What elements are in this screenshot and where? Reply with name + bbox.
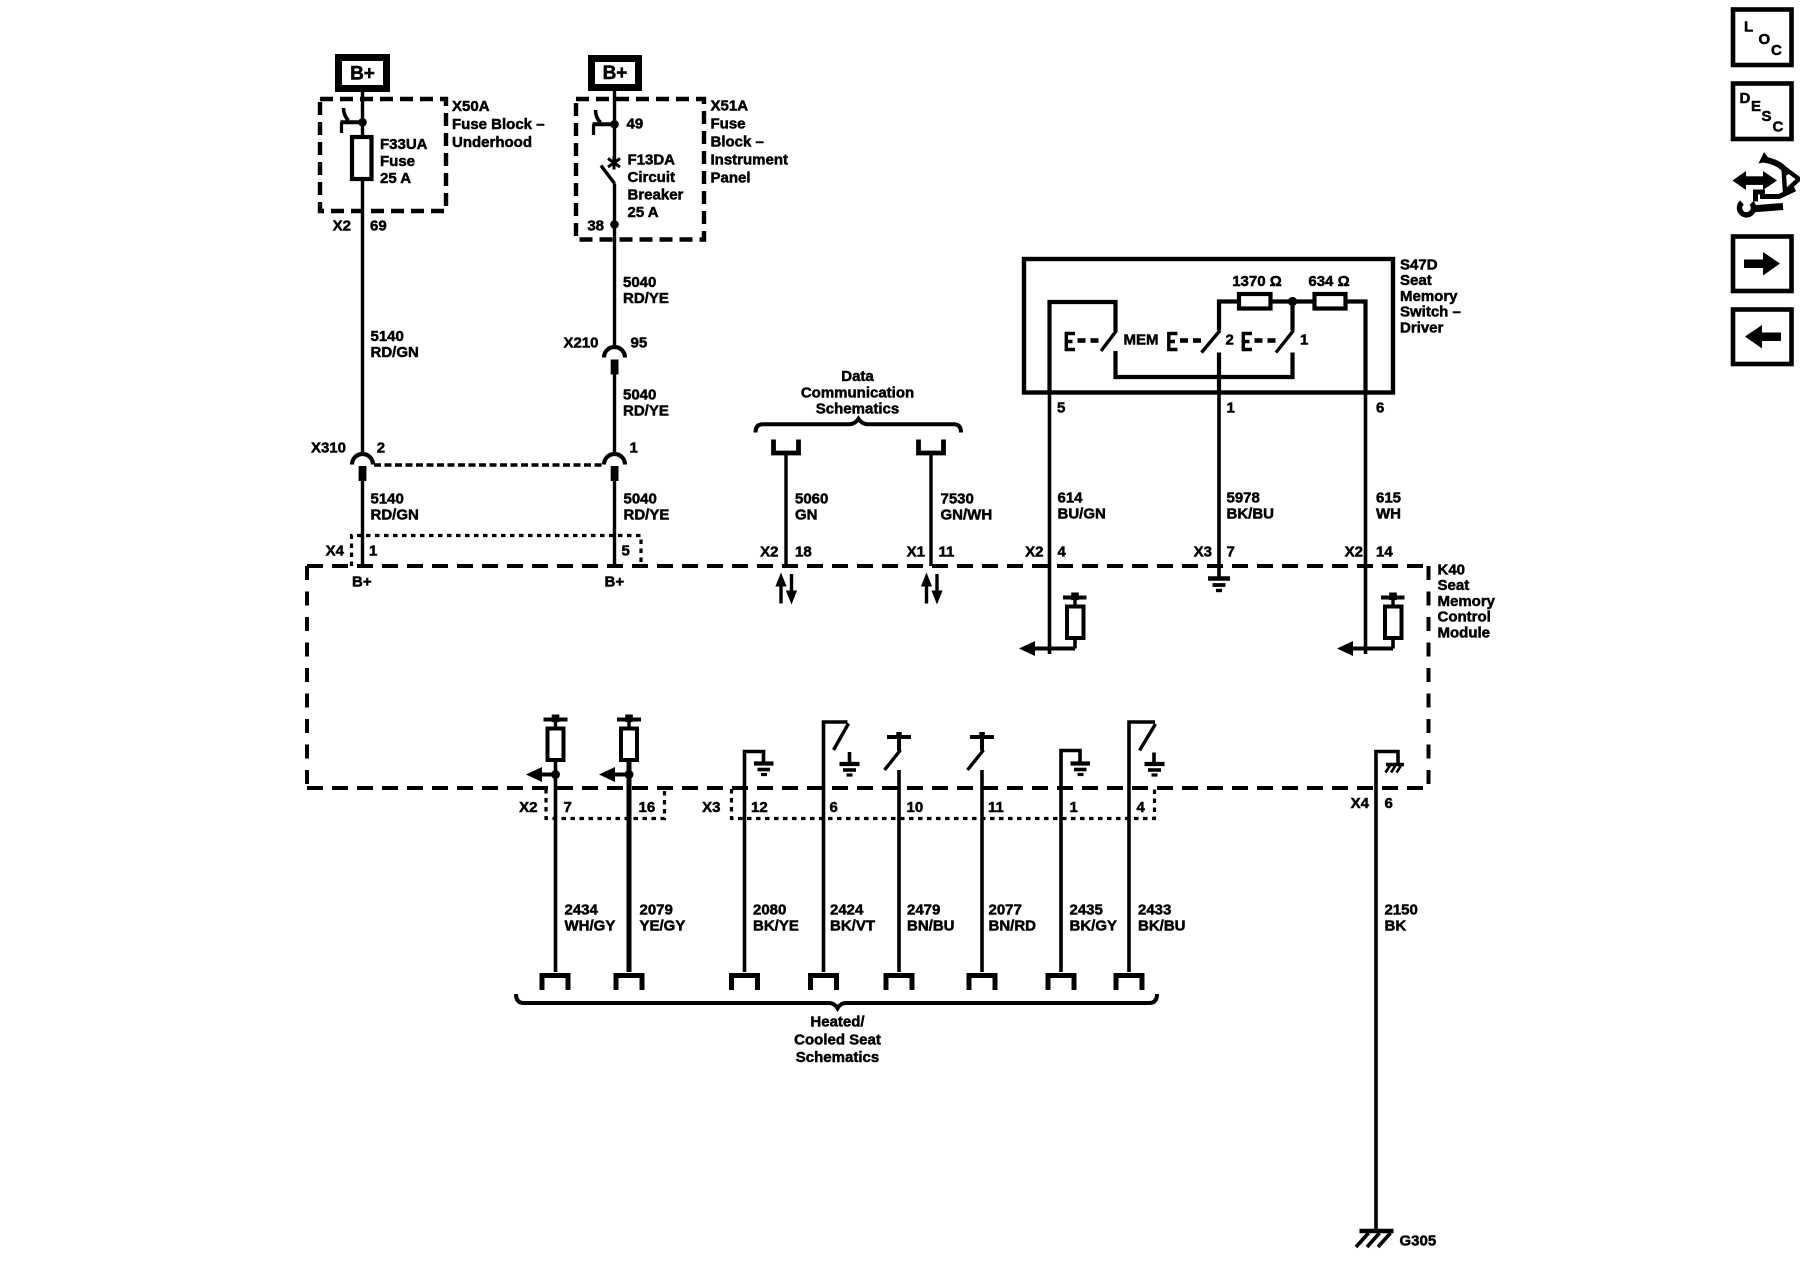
svg-text:2479: 2479 [907,902,940,919]
svg-text:615: 615 [1376,490,1401,507]
module K40 dashed boundary [307,566,1430,788]
svg-text:95: 95 [631,335,648,352]
feedback potentiometer on wire X2-16 [599,715,641,789]
svg-text:2434: 2434 [565,902,599,919]
svg-text:BK/BU: BK/BU [1227,506,1275,523]
dotted connector box around K40 pins X4-1 and X4-5 [352,536,642,567]
svg-text:L: L [1744,19,1753,36]
svg-text:X4: X4 [1351,795,1370,812]
off-page connector wire 2080 [732,976,758,991]
dotted connector box X2 (pins 7,16) [546,789,665,819]
svg-text:2: 2 [1226,332,1234,349]
momentary switch inside module on wire X3-10 [885,732,912,788]
svg-text:Breaker: Breaker [628,187,684,204]
svg-text:2080: 2080 [753,902,786,919]
svg-text:Data: Data [841,368,874,385]
svg-text:G305: G305 [1400,1233,1437,1250]
switch 2 actuator bracket and dashes [1169,334,1201,350]
brace for heated/cooled seat schematics [516,994,1157,1008]
internal feed from pin 5 (left pillar and top rail) [1050,302,1116,393]
ground G305 [1356,1231,1436,1250]
wire label 5140 RD/GN (upper) [371,328,419,361]
wire 2424 BK/VT [824,788,876,972]
wire 5978 BK/BU [1219,393,1274,567]
svg-text:5140: 5140 [371,328,404,345]
feedback potentiometer on wire X2-7 [526,715,568,789]
wire 2080 BK/YE [745,788,799,972]
svg-text:F13DA: F13DA [628,152,676,169]
svg-text:RD/GN: RD/GN [371,344,419,361]
svg-text:6: 6 [1385,795,1393,812]
svg-text:2433: 2433 [1138,902,1171,919]
dashed connector-pair line X310 [374,463,602,466]
label X51A Fuse Block - Instrument Panel [711,98,789,187]
svg-text:X2: X2 [519,799,537,816]
svg-text:GN/WH: GN/WH [941,507,993,524]
wire breaker to X210, junction dot 38 [587,184,618,349]
ground symbol inside module (pin X3-7) [1208,566,1230,591]
svg-text:1: 1 [1300,332,1308,349]
position sensor potentiometer (right, pin X2-14) [1337,566,1405,656]
wire B+ to fuse F33UA [361,92,364,137]
svg-text:Communication: Communication [801,384,914,401]
svg-text:6: 6 [1376,400,1384,417]
svg-text:38: 38 [587,218,604,235]
svg-text:B+: B+ [603,63,628,84]
wire 2434 WH/GY [556,788,616,972]
wire B+ to circuit breaker F13DA [613,91,616,160]
nav icon back arrow [1733,310,1792,365]
off-page connector wire 2433 [1116,976,1142,991]
pin label X3 7 [1194,544,1235,561]
svg-text:S47D: S47D [1400,257,1438,274]
svg-text:O: O [1759,31,1771,48]
svg-text:YE/GY: YE/GY [640,918,686,935]
svg-text:BN/RD: BN/RD [989,918,1037,935]
wire 2479 BN/BU [899,788,955,972]
internal bottom bus [1114,375,1295,379]
label F13DA Circuit Breaker 25 A [628,152,684,222]
svg-text:Fuse: Fuse [711,116,746,133]
label X50A Fuse Block - Underhood [452,98,545,151]
svg-text:7: 7 [564,799,572,816]
svg-text:Panel: Panel [711,170,751,187]
svg-text:E: E [1751,98,1761,115]
svg-text:Memory: Memory [1400,288,1458,305]
nav icon forward arrow [1733,237,1792,292]
svg-text:S: S [1762,108,1772,125]
svg-text:X1: X1 [907,544,925,561]
svg-text:Switch –: Switch – [1400,304,1461,321]
svg-text:11: 11 [939,544,955,561]
connector X210 pin 95 (in-line connector symbol) [563,335,647,375]
svg-text:X50A: X50A [452,98,490,115]
brace for data communication schematics [756,419,962,433]
resistor 1370 ohm [1232,273,1282,309]
off-page connector wire 2424 [811,976,837,991]
svg-text:2435: 2435 [1070,902,1103,919]
svg-text:634 Ω: 634 Ω [1308,273,1349,290]
svg-text:Seat: Seat [1400,272,1432,289]
svg-text:5060: 5060 [795,491,828,508]
svg-text:5140: 5140 [371,491,404,508]
svg-text:Cooled Seat: Cooled Seat [794,1031,881,1048]
svg-text:2424: 2424 [830,902,864,919]
connector X310 pin 2 (in-line connector symbol) [311,440,385,482]
wire 615 WH [1366,393,1402,567]
svg-text:K40: K40 [1438,562,1466,579]
svg-text:X310: X310 [311,440,346,457]
wire 5140 RD/GN lower segment [363,481,419,566]
svg-text:12: 12 [751,799,768,816]
pin label X2 14 [1345,544,1394,561]
switch MEM lower contact [1113,351,1117,379]
connector clip symbol at X50A input, junction dot [341,108,367,133]
svg-text:5978: 5978 [1227,490,1260,507]
pin label X1 11 [907,544,955,561]
svg-text:18: 18 [795,544,812,561]
svg-text:4: 4 [1058,544,1067,561]
svg-text:B+: B+ [605,574,625,591]
node B+ inside module (right) [605,574,625,591]
svg-text:5: 5 [1057,400,1065,417]
svg-text:16: 16 [639,799,656,816]
switch 2 upper contact riser [1219,302,1239,331]
svg-text:RD/YE: RD/YE [623,403,669,420]
position sensor potentiometer (left, pin X2-4) [1019,566,1087,656]
svg-text:WH: WH [1376,506,1401,523]
svg-text:2150: 2150 [1385,902,1418,919]
switch to ground inside module on wire X3-4 [1129,722,1165,788]
nav icon wrench with arrows [1733,152,1800,215]
label K40 Seat Memory Control Module [1438,562,1496,642]
svg-text:10: 10 [907,799,924,816]
svg-text:7: 7 [1227,544,1235,561]
bidirectional data arrows (left pair) [775,573,797,605]
switch 1 actuator bracket and dashes [1243,334,1275,350]
svg-text:C: C [1773,119,1784,136]
connector clip symbol at X51A input, junction dot, pin 49 [593,110,644,135]
switch MEM blade [1101,331,1117,352]
wire 2433 BK/BU [1129,788,1186,972]
svg-text:X3: X3 [702,799,720,816]
svg-text:X2: X2 [1025,544,1043,561]
wire X210 to X310, label 5040 RD/YE (middle) [615,375,669,454]
svg-text:25 A: 25 A [628,204,659,221]
svg-text:WH/GY: WH/GY [565,918,616,935]
svg-text:2077: 2077 [989,902,1022,919]
pin label X4 6 [1351,795,1393,812]
svg-text:25 A: 25 A [380,170,411,187]
svg-text:BK: BK [1385,918,1407,935]
svg-text:X51A: X51A [711,98,749,115]
node B+ inside module (left) [352,574,372,591]
svg-text:1: 1 [630,440,638,457]
pin label X2 7 16 [519,799,655,816]
pin label X3 12 6 10 11 1 4 [702,799,1145,816]
switch 1 lower contact [1290,353,1294,380]
svg-text:6: 6 [830,799,838,816]
svg-text:49: 49 [627,116,644,133]
label Heated/ Cooled Seat Schematics [794,1014,881,1067]
svg-text:X4: X4 [326,543,345,560]
svg-text:614: 614 [1058,490,1084,507]
pin label X4 1 [326,543,378,560]
nav icon DESC [1733,84,1792,140]
dotted connector box X3 (pins 12..4) [732,789,1155,819]
wire resistor junction [1271,297,1315,306]
switch S47D box [1024,259,1393,393]
svg-text:X2: X2 [333,218,351,235]
power feed B+ terminal (right) [588,55,642,91]
off-page connector wire 2435 [1048,976,1074,991]
off-page connector (wire 7530) [919,440,944,454]
svg-text:Control: Control [1438,609,1491,626]
wire 5060 GN [786,453,828,566]
svg-text:Driver: Driver [1400,319,1444,336]
label 2 [1226,332,1234,349]
svg-text:Instrument: Instrument [711,152,789,169]
svg-text:RD/YE: RD/YE [624,507,670,524]
wire from fuse down to X310 [361,179,364,453]
label MEM [1124,332,1159,349]
pin label X2 4 [1025,544,1066,561]
chassis ground hook inside module on wire X4-6 [1376,752,1404,789]
svg-text:2079: 2079 [640,902,673,919]
switch to ground inside module on wire X3-6 [824,722,860,788]
svg-text:BK/BU: BK/BU [1138,918,1186,935]
pin label 5 [622,543,630,560]
wire 2079 YE/GY [629,788,685,972]
circuit breaker F13DA blade [601,166,615,184]
off-page connector wire 2479 [886,976,912,991]
nav icon LOC [1733,10,1792,66]
resistor 634 ohm [1308,273,1349,309]
pin labels 5 1 6 [1057,400,1384,417]
bidirectional data arrows (right pair) [921,573,943,605]
svg-text:1: 1 [1227,400,1235,417]
label S47D Seat Memory Switch - Driver [1400,257,1461,337]
svg-text:5: 5 [622,543,630,560]
svg-text:1: 1 [369,543,377,560]
svg-text:1: 1 [1070,799,1078,816]
label F33UA Fuse 25 A [380,136,428,187]
svg-text:5040: 5040 [624,491,657,508]
pin label X2 18 [760,544,812,561]
power feed B+ terminal (left) [335,54,390,92]
svg-text:2: 2 [377,440,385,457]
ground return inside module on wire X3-12 [745,752,774,789]
svg-text:5040: 5040 [623,274,656,291]
off-page connector (wire 5060) [774,440,799,454]
ground return inside module on wire X3-1 [1061,751,1090,789]
svg-text:X3: X3 [1194,544,1212,561]
svg-text:BK/VT: BK/VT [830,918,875,935]
wire 2435 BK/GY [1061,788,1117,972]
svg-text:5040: 5040 [623,387,656,404]
switch MEM actuator bracket and dashes [1066,334,1098,350]
fuse block X50A dashed boundary [320,99,446,211]
pin label X2 69 [333,218,387,235]
svg-text:B+: B+ [352,574,372,591]
svg-text:B+: B+ [350,64,375,85]
svg-text:Circuit: Circuit [628,169,676,186]
svg-text:X2: X2 [1345,544,1363,561]
svg-text:Schematics: Schematics [796,1049,879,1066]
svg-text:MEM: MEM [1124,332,1159,349]
svg-text:X2: X2 [760,544,778,561]
svg-text:1370 Ω: 1370 Ω [1232,273,1282,290]
svg-text:Block –: Block – [711,134,764,151]
label Data Communication Schematics [801,368,914,418]
svg-text:X210: X210 [563,335,598,352]
svg-text:Underhood: Underhood [452,134,532,151]
wire resistor to pin 6 pillar [1346,302,1366,393]
connector X310 pin 1 (in-line connector symbol) [604,440,638,482]
svg-text:Fuse Block –: Fuse Block – [452,116,545,133]
svg-text:Memory: Memory [1438,593,1496,610]
momentary switch inside module on wire X3-11 [968,732,995,788]
off-page connector wire 2077 [969,976,995,991]
wire label 5040 RD/YE (upper) [623,274,669,307]
svg-text:BK/GY: BK/GY [1070,918,1118,935]
wire 2077 BN/RD [982,788,1036,972]
svg-text:BN/BU: BN/BU [907,918,955,935]
svg-text:GN: GN [795,507,818,524]
off-page connector wire 2079 [616,976,642,991]
switch 1 blade [1276,331,1294,353]
switch 2 lower contact to pin 1 [1217,353,1221,393]
switch 2 blade [1202,331,1221,353]
svg-text:11: 11 [988,799,1004,816]
svg-text:RD/YE: RD/YE [623,290,669,307]
switch 1 upper contact riser from junction [1290,302,1294,331]
svg-text:RD/GN: RD/GN [371,507,419,524]
svg-text:F33UA: F33UA [380,136,428,153]
svg-text:7530: 7530 [941,491,974,508]
svg-text:Heated/: Heated/ [810,1014,865,1031]
label 1 [1300,332,1308,349]
fuse F33UA 25 A [352,137,372,179]
svg-text:C: C [1771,42,1782,59]
svg-text:D: D [1740,90,1751,107]
svg-text:BK/YE: BK/YE [753,918,799,935]
wire 2150 BK [1376,788,1418,1231]
wire 5040 RD/YE lower segment [615,481,670,566]
svg-text:4: 4 [1137,799,1146,816]
svg-text:Fuse: Fuse [380,153,415,170]
svg-text:69: 69 [370,218,387,235]
fuse block X51A dashed boundary [576,99,704,240]
wire 614 BU/GN [1050,393,1106,567]
wire 7530 GN/WH [931,453,992,566]
circuit breaker F13DA contact star [608,156,620,170]
svg-text:BU/GN: BU/GN [1058,506,1106,523]
svg-text:Module: Module [1438,624,1491,641]
svg-text:Seat: Seat [1438,577,1470,594]
off-page connector wire 2434 [542,976,568,991]
svg-text:14: 14 [1376,544,1393,561]
svg-text:Schematics: Schematics [816,401,899,418]
